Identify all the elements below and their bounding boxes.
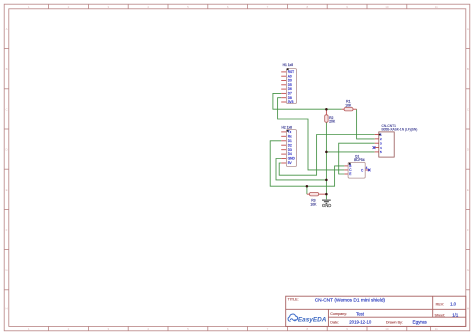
svg-text:2019-12-10: 2019-12-10 — [349, 320, 372, 325]
svg-text:10: 10 — [385, 327, 389, 331]
resistor R3 — [307, 192, 327, 206]
border ticks bottom — [49, 326, 431, 330]
header H2 (Wemos D1 mini 1x8) — [281, 125, 296, 166]
ground GND — [322, 200, 331, 208]
junction node dots — [306, 108, 328, 195]
no-connect X on pin 4 — [368, 169, 371, 172]
svg-text:10K: 10K — [310, 203, 317, 207]
svg-text:CN-CNT (Wemos D1 mini shield): CN-CNT (Wemos D1 mini shield) — [315, 298, 386, 304]
svg-text:1/1: 1/1 — [452, 312, 459, 317]
svg-text:D2: D2 — [288, 143, 292, 147]
svg-text:REV:: REV: — [436, 302, 444, 306]
wire: H2 GND to ground rail — [276, 159, 326, 180]
svg-text:F: F — [467, 228, 469, 232]
wire: H1 D8 to Q1 collector C — [278, 98, 345, 170]
wire: node to CN-CNT1 pin5 — [326, 151, 374, 153]
svg-text:GND: GND — [288, 157, 296, 161]
svg-text:10: 10 — [385, 5, 389, 9]
wire: H2 5V to CN-CNT1 pin1 — [279, 135, 375, 176]
svg-text:11: 11 — [435, 327, 438, 331]
wire: R3 left leg from D1 net — [306, 186, 308, 194]
svg-text:BCP54: BCP54 — [354, 158, 365, 162]
svg-text:Drawn By:: Drawn By: — [386, 321, 403, 325]
svg-text:E: E — [6, 188, 8, 192]
svg-text:GND: GND — [322, 203, 331, 208]
svg-text:20K: 20K — [329, 120, 336, 124]
svg-text:E: E — [349, 172, 351, 176]
svg-text:10K: 10K — [345, 103, 352, 107]
svg-text:E: E — [467, 188, 469, 192]
svg-text:Tx: Tx — [288, 130, 292, 134]
svg-text:Company:: Company: — [330, 312, 347, 316]
svg-text:D1: D1 — [288, 139, 292, 143]
svg-text:H: H — [6, 306, 8, 310]
svg-text:Date:: Date: — [330, 321, 339, 325]
resistor R1 — [342, 99, 357, 111]
svg-text:3V3: 3V3 — [288, 100, 294, 104]
wire: H2 D1 to Q1 base B — [270, 141, 344, 186]
svg-text:TITLE:: TITLE: — [288, 298, 299, 302]
header H1 (Wemos D1 mini 1x8) — [281, 63, 296, 104]
connector CN-CNT1 — [373, 124, 418, 157]
svg-text:B: B — [467, 67, 469, 71]
svg-text:Egyras: Egyras — [413, 320, 428, 325]
svg-text:4: 4 — [366, 166, 368, 170]
no-connect X on pin 4 — [373, 146, 376, 149]
svg-text:Sheet:: Sheet: — [435, 313, 446, 317]
svg-text:H1 1x8: H1 1x8 — [283, 63, 294, 67]
wire: CN-CNT1 pin3 to Q1 emitter E — [339, 143, 375, 174]
svg-text:1.0: 1.0 — [450, 301, 457, 306]
svg-text:B: B — [6, 67, 8, 71]
wire: H1 D7 to R1/R2 node — [273, 93, 342, 109]
svg-text:A: A — [6, 27, 8, 31]
wire: R1 right to CN-CNT1 pin2 — [357, 109, 375, 139]
svg-text:A: A — [467, 27, 469, 31]
svg-text:D4: D4 — [288, 152, 292, 156]
border ticks top — [49, 4, 407, 9]
svg-text:B05B-XASK-1N (LF)(SN): B05B-XASK-1N (LF)(SN) — [382, 128, 418, 132]
svg-text:5: 5 — [380, 150, 382, 154]
TITLE BLOCK — [286, 296, 466, 326]
svg-text:Test: Test — [356, 311, 365, 316]
wire: ground rail vertical R2 bottom to GND — [325, 122, 327, 199]
svg-text:H2 1x8: H2 1x8 — [282, 125, 293, 129]
transistor Q1 BCP54 — [344, 155, 370, 178]
border ticks left — [4, 49, 9, 290]
svg-text:H: H — [467, 306, 469, 310]
EasyEDA logo — [288, 314, 327, 323]
svg-text:D3: D3 — [288, 148, 292, 152]
svg-text:11: 11 — [435, 5, 438, 9]
border ticks right — [466, 49, 470, 290]
svg-text:F: F — [6, 228, 8, 232]
resistor R2 — [325, 109, 336, 123]
svg-text:Rx: Rx — [288, 134, 292, 138]
svg-text:EasyEDA: EasyEDA — [298, 316, 327, 323]
